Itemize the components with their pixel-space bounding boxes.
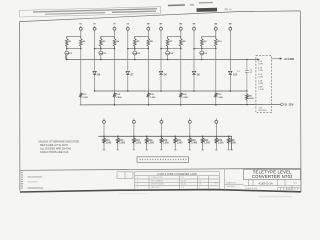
svg-text:3: 3 bbox=[137, 184, 138, 186]
svg-text:DRAWN BY: DRAWN BY bbox=[226, 181, 237, 184]
terminal input 3 bbox=[113, 26, 116, 30]
diode D1 bbox=[65, 49, 73, 61]
svg-text:R18: R18 bbox=[135, 140, 140, 142]
svg-text:B -12V: B -12V bbox=[285, 103, 294, 107]
wire bottom bar unit 5 bbox=[193, 48, 216, 50]
diode D2 bbox=[99, 49, 107, 61]
wire top bar unit 4 bbox=[168, 30, 181, 36]
diode D3 bbox=[133, 49, 141, 61]
svg-text:26: 26 bbox=[199, 180, 201, 182]
svg-text:ALL DIODES ARE 1N4148: ALL DIODES ARE 1N4148 bbox=[40, 146, 71, 150]
svg-text:RES'S ARE 1/2 W ±10%: RES'S ARE 1/2 W ±10% bbox=[40, 143, 69, 147]
resistor R4 bbox=[113, 36, 120, 48]
svg-text:R20: R20 bbox=[163, 140, 168, 142]
svg-text:1-888: 1-888 bbox=[258, 83, 263, 85]
svg-text:1,500: 1,500 bbox=[217, 97, 223, 99]
resistor R10 bbox=[215, 36, 223, 48]
svg-text:L-2,4B: L-2,4B bbox=[258, 88, 264, 91]
resistor R2 bbox=[80, 36, 87, 48]
svg-text:J-1: J-1 bbox=[181, 177, 184, 179]
diode D4 bbox=[166, 49, 174, 61]
svg-text:R19: R19 bbox=[148, 140, 153, 142]
svg-text:R24: R24 bbox=[204, 139, 209, 142]
svg-text:C-1: C-1 bbox=[181, 187, 184, 189]
resistor R11 bbox=[80, 49, 89, 105]
svg-text:1,500: 1,500 bbox=[204, 143, 210, 145]
wire rail C (output rail) bbox=[98, 136, 233, 150]
svg-text:10: 10 bbox=[199, 184, 201, 186]
resistor R21 bbox=[246, 93, 255, 106]
terminal input 9 bbox=[214, 26, 217, 30]
resistor R5 bbox=[134, 36, 141, 48]
terminal input 6 bbox=[160, 26, 163, 30]
terminal output 4 bbox=[188, 118, 191, 137]
svg-text:1,500: 1,500 bbox=[82, 97, 88, 99]
wire top bar unit 3 bbox=[135, 30, 149, 36]
svg-text:CAPACITORS ARE UUF: CAPACITORS ARE UUF bbox=[40, 150, 69, 154]
terminal input 4 bbox=[126, 26, 129, 30]
resistor R9 bbox=[201, 36, 208, 48]
wire top bar unit 2 bbox=[101, 30, 115, 36]
svg-text:1,500: 1,500 bbox=[106, 143, 112, 145]
wire rail A (zener common) bbox=[95, 90, 247, 92]
terminal input 8 bbox=[193, 26, 196, 30]
svg-text:2,400: 2,400 bbox=[116, 96, 122, 99]
svg-text:1,500: 1,500 bbox=[177, 143, 183, 145]
svg-text:SCALE NONE: SCALE NONE bbox=[245, 187, 258, 190]
svg-text:DIODE 1N4148: DIODE 1N4148 bbox=[151, 184, 163, 186]
svg-text:1: 1 bbox=[137, 177, 138, 179]
svg-text:+6 GND: +6 GND bbox=[283, 57, 294, 61]
capacitor C1 bbox=[237, 59, 253, 92]
resistor R18 bbox=[133, 136, 142, 150]
resistor R25 bbox=[215, 136, 224, 150]
svg-text:D1-10: D1-10 bbox=[181, 184, 186, 186]
svg-text:4: 4 bbox=[137, 187, 138, 189]
svg-text:2,400: 2,400 bbox=[191, 142, 197, 145]
svg-text:D10: D10 bbox=[233, 73, 238, 76]
svg-text:CONN 22 PIN: CONN 22 PIN bbox=[151, 177, 163, 179]
svg-text:R22: R22 bbox=[177, 140, 182, 142]
wire bottom bar unit 4 bbox=[160, 48, 181, 50]
svg-text:1,500: 1,500 bbox=[249, 98, 255, 100]
wire bottom bar unit 2 bbox=[94, 48, 115, 50]
resistor R19 bbox=[145, 136, 154, 150]
svg-text:GROUND: GROUND bbox=[258, 110, 267, 112]
wire top bar unit 1 bbox=[67, 30, 81, 36]
zener diode D9 bbox=[192, 30, 200, 92]
connector J1 bbox=[256, 56, 272, 113]
svg-text:R23: R23 bbox=[191, 140, 196, 142]
wire bottom bar unit 3 bbox=[127, 48, 149, 50]
terminal +6 GND bbox=[272, 57, 294, 61]
terminal output 2 bbox=[132, 118, 135, 137]
svg-text:UNLESS OTHERWISE INDICATED:: UNLESS OTHERWISE INDICATED: bbox=[38, 140, 80, 144]
svg-text:R16: R16 bbox=[106, 140, 111, 142]
terminal output 5 bbox=[215, 118, 218, 137]
resistor R13 bbox=[147, 49, 156, 106]
terminal input 2 bbox=[93, 26, 96, 30]
zener diode D8 bbox=[159, 30, 167, 92]
resistor R17 bbox=[117, 136, 126, 150]
svg-text:1-888: 1-888 bbox=[258, 70, 263, 72]
terminal input 10 bbox=[229, 26, 232, 30]
resistor R22 bbox=[174, 136, 183, 150]
svg-text:1,500: 1,500 bbox=[163, 143, 169, 145]
resistor R1 bbox=[66, 36, 73, 48]
wire top bar unit 5 bbox=[202, 30, 216, 36]
terminal input 5 bbox=[147, 26, 150, 30]
wire bus from input diodes to connector J1 bbox=[66, 55, 260, 60]
resistor R12 bbox=[113, 49, 122, 106]
terminal output 3 bbox=[160, 118, 163, 137]
svg-text:LOAD & CODE CONVERTER CARD: LOAD & CODE CONVERTER CARD bbox=[157, 173, 197, 176]
svg-text:2: 2 bbox=[137, 180, 138, 182]
svg-text:CAP 20UF: CAP 20UF bbox=[151, 186, 160, 189]
svg-text:4183-D-24: 4183-D-24 bbox=[258, 181, 273, 185]
resistor R7 bbox=[166, 36, 173, 48]
svg-text:1: 1 bbox=[199, 177, 200, 179]
resistor R3 bbox=[100, 36, 107, 48]
svg-text:CONVERTER N702: CONVERTER N702 bbox=[252, 174, 293, 179]
svg-text:RES CARBON: RES CARBON bbox=[151, 179, 164, 182]
zener diode D7 bbox=[126, 30, 134, 92]
resistor R23 bbox=[189, 136, 198, 150]
svg-text:1,500: 1,500 bbox=[218, 143, 224, 145]
svg-text:1-888: 1-888 bbox=[258, 64, 263, 66]
svg-text:1-888: 1-888 bbox=[258, 77, 263, 79]
resistor R8 bbox=[180, 36, 187, 48]
terminal -12V bbox=[281, 103, 294, 107]
connector P1 edge strip bbox=[137, 157, 189, 163]
svg-text:1: 1 bbox=[199, 187, 200, 189]
svg-text:1,500: 1,500 bbox=[135, 143, 141, 145]
svg-text:SHEET 1: SHEET 1 bbox=[286, 189, 294, 191]
terminal output 1 bbox=[103, 118, 106, 137]
wire bottom bar unit 1 bbox=[66, 48, 82, 50]
resistor R24 bbox=[201, 136, 210, 150]
svg-text:1,500: 1,500 bbox=[150, 97, 156, 99]
resistor R20 bbox=[160, 136, 169, 150]
terminal input 1 bbox=[79, 26, 82, 30]
resistor R15 bbox=[215, 49, 224, 106]
svg-text:R26: R26 bbox=[230, 140, 235, 142]
svg-text:CHECKED: CHECKED bbox=[226, 186, 236, 188]
diode D5 bbox=[200, 49, 208, 61]
svg-text:1,500: 1,500 bbox=[230, 143, 236, 145]
resistor R26 bbox=[227, 136, 236, 150]
terminal input 7 bbox=[179, 26, 182, 30]
resistor R16 bbox=[103, 136, 112, 150]
wire rail B (-12V rail) bbox=[80, 103, 281, 106]
svg-text:R17: R17 bbox=[119, 140, 124, 142]
svg-text:1,500: 1,500 bbox=[182, 97, 188, 99]
svg-text:R1-26: R1-26 bbox=[181, 180, 186, 182]
zener diode D6 bbox=[93, 30, 101, 92]
svg-text:1,500: 1,500 bbox=[119, 143, 125, 145]
zener diode D10 bbox=[229, 30, 238, 92]
svg-text:1,800: 1,800 bbox=[148, 143, 154, 145]
resistor R14 bbox=[180, 49, 189, 106]
resistor R6 bbox=[147, 36, 154, 48]
svg-text:R25: R25 bbox=[218, 140, 223, 142]
